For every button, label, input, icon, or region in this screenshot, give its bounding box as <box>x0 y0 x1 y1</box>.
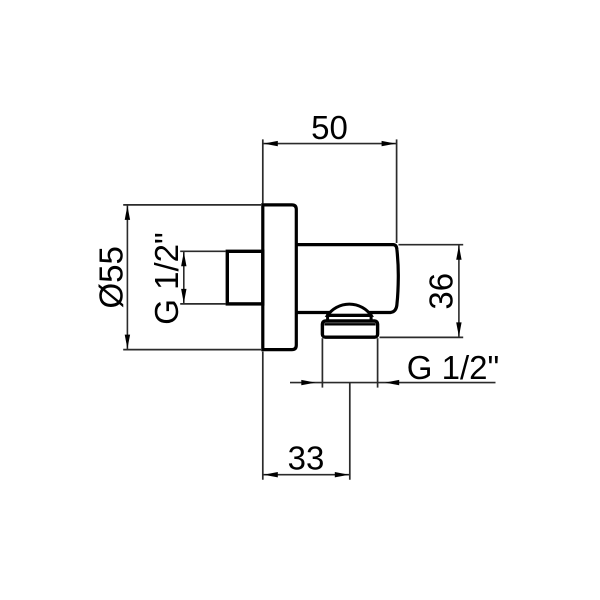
dimension 36: bottom arrowhead <box>456 322 461 336</box>
outlet dome <box>328 304 372 315</box>
outlet ring nut <box>322 321 377 337</box>
dimension 36: dimension line <box>458 245 460 338</box>
dimension 36: extension line top <box>399 244 464 246</box>
dimension G 1/2 right: extension line right (outlet side) <box>377 338 379 387</box>
dimension Ø55: bottom arrowhead <box>125 335 130 349</box>
svg-text:Ø55: Ø55 <box>93 246 130 308</box>
dimension 50: right arrowhead <box>382 141 396 146</box>
dimension Ø55: dimension line <box>126 205 128 350</box>
dimension 36: top arrowhead <box>456 246 461 260</box>
body (horizontal tube) <box>296 245 398 313</box>
dimension Ø55: extension line top <box>123 204 261 206</box>
dimension G 1/2 left: extension line top <box>180 250 226 252</box>
dimension G 1/2 left: dimension line <box>183 251 185 304</box>
neck right edge <box>370 315 373 321</box>
dimension G 1/2 left: top arrowhead <box>181 252 186 266</box>
wall plate (escutcheon, side view) <box>263 205 297 350</box>
dome base line <box>326 314 372 317</box>
dimension G 1/2 right: right arrowhead <box>385 380 399 385</box>
dimension 33: right arrowhead <box>335 472 349 477</box>
dimension 33: dimension line <box>263 474 350 476</box>
dimension Ø55: top arrowhead <box>125 206 130 220</box>
dimension 50: dimension line <box>263 143 397 145</box>
svg-text:50: 50 <box>311 109 348 146</box>
dimension G 1/2 right: dimension line <box>290 382 496 384</box>
svg-text:G 1/2": G 1/2" <box>407 349 499 386</box>
neck left edge <box>326 315 329 321</box>
svg-text:33: 33 <box>288 439 325 476</box>
dimension 50: extension line left <box>262 139 264 203</box>
dimension 36: extension line bottom <box>380 336 464 338</box>
ring inner lip line <box>324 323 375 325</box>
inlet stub G 1/2 (left) <box>227 251 262 304</box>
dimension G 1/2 left: extension line bottom <box>180 303 226 305</box>
dimension 50: extension line right <box>396 139 398 243</box>
dimension 50: left arrowhead <box>264 141 278 146</box>
svg-text:G 1/2": G 1/2" <box>148 232 185 324</box>
dimension G 1/2 right: left arrowhead <box>301 380 315 385</box>
svg-text:36: 36 <box>423 273 460 310</box>
dimension G 1/2 left: bottom arrowhead <box>181 289 186 303</box>
dimension 33: extension line left <box>262 352 264 480</box>
dimension 33: left arrowhead <box>264 472 278 477</box>
dimension Ø55: extension line bottom <box>123 349 261 351</box>
outlet centerline extension <box>349 383 351 480</box>
dimension G 1/2 right: extension line left (outlet side) <box>321 338 323 387</box>
